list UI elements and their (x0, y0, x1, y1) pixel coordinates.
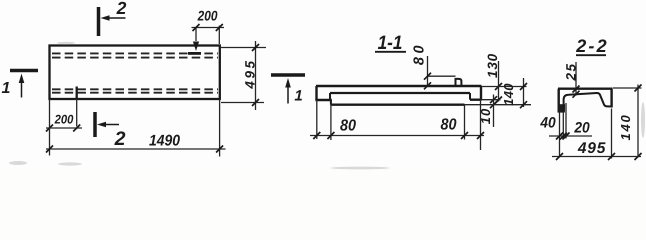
section 1-1: level B extension line (right) (465, 104, 532, 106)
section 1-1: left step (330, 100, 332, 105)
dimension 200 (plan top): arrow to hidden rib (193, 42, 199, 52)
svg-text:495: 495 (577, 140, 606, 157)
hidden rib dashed line (top, lower) (52, 57, 218, 59)
section 2-2: left wall lower ink blob (558, 104, 565, 112)
dimension 10: ticks (490, 96, 497, 108)
section 1-1: level A extension line (right) (482, 99, 501, 101)
hidden rib dashed line (top, upper) (52, 52, 218, 54)
dimension 140 (section 2-2 right): top extension (613, 87, 642, 89)
svg-text:80: 80 (412, 42, 428, 65)
section mark 1 (left): bar (10, 69, 38, 73)
svg-text:20: 20 (573, 120, 590, 137)
dimension 1490 (plan bottom): ticks (46, 146, 223, 153)
section 1-1: bottom edge (level B) (331, 103, 465, 105)
section 2-2: left wall bottom (558, 110, 565, 112)
hidden rib dashed line (bottom, upper) (52, 88, 218, 90)
dimension 80 (rib height): lines (428, 56, 456, 87)
dimension 200 (plan bottom left): lines (46, 99, 82, 128)
section mark 2 (bottom): arrow (97, 122, 119, 127)
dimension 130 (section 1-1 right): line (498, 61, 500, 102)
dimension 25 (section 2-2): line (575, 62, 577, 96)
svg-text:1490: 1490 (149, 133, 180, 150)
section mark 1 (right): bar (271, 73, 305, 77)
scan noise specks (9, 42, 645, 170)
section mark 1 (left): arrow (19, 74, 25, 98)
section 1-1: left leg inner edge (329, 93, 331, 100)
dimension 495: right extension (611, 109, 613, 159)
section 2-2: title underline (576, 54, 606, 56)
dimension 140: ticks (520, 83, 527, 108)
section 2-2: inner contour (wall inner, fillet, deck soffit, right haunch) (564, 93, 612, 112)
section 1-1: left leg bottom (315, 99, 331, 101)
dimension 200 (plan bottom left): ticks (46, 125, 80, 132)
svg-text:80: 80 (340, 118, 356, 135)
dimension 200 (plan top): lines (192, 26, 225, 45)
section 1-1: right end edge (480, 86, 482, 100)
svg-text:200: 200 (197, 8, 218, 24)
dimension 495: ticks (556, 153, 642, 160)
svg-text:140: 140 (618, 113, 633, 140)
section mark 2 (bottom): bar (93, 112, 97, 137)
svg-text:25: 25 (564, 62, 579, 81)
svg-text:200: 200 (54, 113, 74, 127)
dimension 80 (rib height): ticks (424, 73, 431, 90)
section mark 1 (right): arrow (285, 78, 291, 104)
svg-text:130: 130 (485, 53, 500, 78)
section 1-1: right seat (level A) (470, 98, 482, 100)
svg-text:2-2: 2-2 (575, 36, 609, 56)
svg-text:140: 140 (501, 83, 516, 106)
svg-text:80: 80 (440, 117, 456, 134)
dimension 140 (section 1-1 right): line (523, 78, 525, 107)
svg-text:10: 10 (478, 108, 493, 124)
svg-text:495: 495 (243, 58, 258, 89)
svg-text:1: 1 (294, 88, 302, 105)
svg-text:1-1: 1-1 (378, 32, 403, 54)
section 2-2: bottom extension lines (560, 103, 567, 157)
hidden rib dashed line (bottom, lower) (52, 92, 218, 94)
svg-text:1: 1 (2, 80, 11, 97)
section mark 2 (top): arrow (101, 15, 126, 20)
section 1-1: slab top edge (316, 85, 482, 87)
dimension 140 (section 2-2): line (637, 85, 639, 158)
dimension 495 (plan right): ticks (252, 44, 259, 106)
dimension 80/80 (section 1-1 bottom): dim line (310, 135, 484, 137)
dimension 25: ticks (573, 86, 580, 98)
dimension 40/20 (section 2-2): dim line (549, 135, 592, 137)
dimension 40/20: ticks (556, 133, 570, 140)
section 1-1: title underline (375, 51, 406, 53)
section 1-1: bottom dimension extension lines (317, 100, 481, 150)
section mark 2 (top): bar (97, 7, 101, 36)
hidden transverse rib mark (bottom left) (76, 87, 78, 99)
svg-text:2: 2 (116, 0, 127, 18)
svg-text:40: 40 (539, 115, 556, 132)
dimension 200 (plan top): ticks (193, 24, 223, 31)
section 1-1: slab top extension line (right) (482, 86, 527, 88)
plan view: slab outline (50, 46, 220, 100)
section 1-1: left leg outer edge (315, 86, 317, 100)
dimension 495 (section 2-2 bottom): dim line (552, 156, 641, 158)
dimension 495 (plan right): lines (221, 41, 266, 110)
dimension 140 (section 2-2): ticks (635, 85, 642, 92)
section 2-2: right edge (610, 89, 612, 108)
dimension 1490 (plan bottom): lines (46, 99, 226, 157)
dimension 130: ticks (495, 83, 502, 104)
section 2-2: outer top edge (558, 87, 613, 89)
section 1-1: flange soffit (330, 92, 470, 94)
svg-text:2: 2 (114, 128, 126, 150)
dimension 10 (section 1-1 right): line (493, 95, 495, 128)
section 1-1: top rib (456, 79, 462, 87)
section 1-1: right notch step (469, 93, 471, 100)
hidden transverse rib mark (top right) (188, 52, 201, 55)
section 2-2: left wall outer edge (558, 89, 560, 112)
dimension 80/80 (section 1-1 bottom): ticks (313, 132, 484, 139)
